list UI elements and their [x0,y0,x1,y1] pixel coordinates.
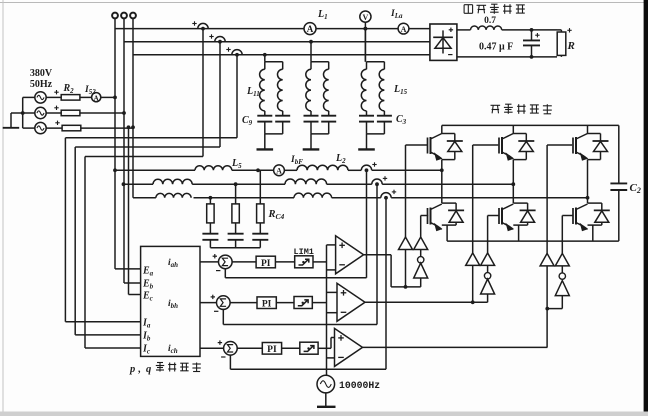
label + S3 [218,342,222,344]
label + humpF3 [392,191,396,193]
inverter bubble A [418,257,424,263]
wire C lower gate [561,216,563,254]
wire phase c [46,127,62,129]
wire vertical phase A [114,18,116,269]
wire A upper gate [405,145,407,237]
capacitor C2 [618,125,620,183]
driver B buffer2 [481,253,495,266]
node F2 start [122,182,126,186]
wire Ib sense [219,42,221,147]
wire C bubble link [561,266,563,273]
wire ich out [200,347,224,349]
wire B lower gate [487,216,489,253]
driver C inverter [555,281,569,296]
terminal A [112,13,118,19]
wire hump F1 sense [366,172,368,278]
wire F1 e [372,169,442,171]
CT hump F1 [361,165,371,170]
svg-text:380V: 380V [30,68,53,79]
CT hump line2 [215,37,225,42]
wire B upper gate [472,145,474,253]
wire Ec entry [129,294,141,296]
wire vertical phase B [123,18,125,283]
svg-text:A: A [307,24,314,34]
summing junction S3 [224,342,238,356]
node Ec tap [127,125,131,129]
comparator 1 [336,236,364,274]
wire ibh out [200,302,217,304]
wire osc ground [325,392,327,406]
driver C buffer2 [555,253,569,266]
label + phase c [55,122,59,124]
border artifact bottom gray band [0,412,648,416]
node cap tap [530,28,534,32]
driver A inverter [414,263,428,278]
wire A input [405,250,407,287]
svg-text:p: p [129,364,135,375]
resistor R2 phase a [61,95,80,101]
wire PI2 to LIM2 [276,302,294,304]
inductor 0.7 [471,26,502,30]
wire F1 a [115,169,195,171]
inductor F3 right [294,193,332,198]
svg-text:V: V [363,13,369,22]
AC source Vb [35,107,46,118]
label + S2 [211,296,215,298]
node V junction [364,27,368,31]
limiter 3 [300,342,318,354]
svg-text:10000Hz: 10000Hz [339,380,380,391]
wire b to bus [80,112,124,114]
wire phase a [46,96,61,98]
wire DC bus top [442,124,619,126]
wire iah out [200,261,219,263]
comparator 3 [335,328,363,366]
label + humpF2 [383,177,387,179]
filter group 2 [310,42,312,62]
oscillator 10000Hz [317,375,335,393]
svg-text:50Hz: 50Hz [30,79,53,90]
svg-text:R: R [567,40,575,52]
wire line1 [115,28,304,30]
capacitor rc1 [202,233,218,235]
node F2 leg junction [511,182,515,186]
wire comp2 out [365,301,488,303]
svg-text:PI: PI [262,300,272,310]
label + hump3 [226,49,230,51]
resistor R load [557,32,566,55]
wire S1 to PI1 [232,261,257,263]
wire a to ammeter [80,96,92,98]
wire F2 d [382,183,513,185]
filter group 3 L15 C3 [364,29,366,62]
driver C buffer1 [540,253,554,266]
CT hump line3 [232,50,242,55]
label + R [567,29,571,31]
node F2 rc2 [234,182,238,186]
wire vertical Ec sense [128,127,130,294]
AC source Vc [35,122,46,133]
AC source Va [35,92,46,103]
inductor F3 left [156,193,191,197]
wire osc vertical [326,245,328,376]
inductor L2 phase a [297,165,348,170]
node F1 start [113,168,117,172]
svg-text:q: q [146,364,151,375]
svg-text:0.47 μ F: 0.47 μ F [479,42,513,53]
node phase A source join [113,96,117,100]
IGBT leg phase B [498,138,500,154]
svg-text:0.7: 0.7 [484,16,496,26]
wire rc common [210,247,260,249]
wire rect out top [457,29,471,31]
label - S2 [214,310,218,312]
wire phase b [46,112,61,114]
node phase B source join [122,111,126,115]
inverter bubble B [484,273,490,279]
node F3 rc1 [209,196,213,200]
inductor L5 [195,166,232,171]
pq module box [141,246,200,356]
wire comp3 out [363,346,548,348]
node group1 tap [263,53,267,57]
node B drv junction [471,300,475,304]
wire S2 feedback [222,309,224,325]
label nonlinear load [463,5,465,14]
wire S3 to PI3 [237,347,263,349]
wire Eb entry [124,282,141,284]
capacitor rc2 [228,233,244,235]
terminal C [130,13,136,19]
label active filter [491,104,501,106]
wire F1 c [284,169,297,171]
label + hump1 [192,23,196,25]
driver B buffer1 [466,253,480,266]
border artifact right black bar [644,0,648,412]
wire B bubble link [487,265,489,272]
label + phase b [54,107,58,109]
wire F2 a [124,183,154,185]
summing junction S2 [217,296,231,310]
CT hump line1 [198,23,208,28]
wire F3 c [332,197,381,199]
wire R top [557,29,561,31]
wire load bottom [457,56,557,58]
node neutral junction [21,111,25,115]
ground source [3,127,20,129]
wire c to bus [81,127,133,129]
wire S1 feedback [224,268,226,278]
wire F3 b [194,197,295,199]
capacitor 0.47uF [531,30,533,41]
limiter LIM1 [295,256,313,268]
wire PI1 to LIM1 [275,261,294,263]
ground oscillator [317,406,336,408]
wire line3 [133,54,430,56]
wire S2 to PI2 [230,302,258,304]
svg-text:PI: PI [261,259,271,269]
filter group 1 L11 C9 [264,55,266,62]
wire F2 b [192,183,285,185]
wire Ia sense [236,55,238,138]
wire line2 [124,41,430,43]
rectifier diode [442,30,444,53]
wire PI3 to LIM3 [282,347,300,349]
label + cap [535,34,539,36]
driver A buffer1 [399,237,413,250]
wire comp1 out [364,254,392,256]
wire F3 d [391,197,587,199]
svg-text:PI: PI [267,345,277,355]
svg-text:A: A [401,25,407,34]
svg-text:A: A [276,167,282,176]
wire DC bus bottom [447,240,619,242]
wire F1 b [232,169,274,171]
driver A buffer2 [414,237,428,250]
label + S1 [213,255,217,257]
wire Ea entry [115,268,141,270]
label - S1 [216,270,220,272]
border artifact top [0,2,648,4]
summing junction S1 [219,255,233,269]
label + humpF1 [372,164,376,166]
limiter 2 [294,297,312,309]
inductor F2 left [153,179,192,184]
wire C input [546,266,548,348]
wire a to bus [101,96,115,98]
PI controller 2 [257,297,276,309]
wire comp2 plus jog [327,291,338,293]
wire LIM2 out [312,302,326,304]
label - rectifier [448,54,452,56]
PI controller 1 [256,256,275,268]
node group3 tap [364,27,368,31]
IGBT leg phase C [572,138,574,154]
border artifact left [2,0,4,416]
resistor R phase b [61,110,80,116]
ammeter L1 [304,23,316,35]
ammeter I52 [92,93,101,102]
wire load top [502,29,557,31]
resistor RC branch1 [209,198,211,204]
wire A lower gate [420,216,422,238]
wire source neutral bus [22,97,24,128]
capacitor rc3 [252,233,268,235]
wire comp1 minus [327,269,336,271]
wire V stub [364,22,366,28]
inverter bubble C [559,273,565,279]
wire comp3 minus [327,357,335,359]
ammeter IbF [274,165,285,176]
wire F3 a [134,197,156,199]
terminal B [121,13,127,19]
wire comp1 plus jog [327,244,336,246]
label + phase a [54,91,58,93]
node cap bottom [530,55,534,59]
node phase C source join [131,125,135,129]
wire to ground [11,112,23,114]
comparator 2 [337,283,365,321]
wire vertical phase C [132,18,134,197]
voltmeter V [360,11,371,22]
driver B inverter [481,279,495,294]
PI controller 3 [262,343,281,355]
wire F2 c [327,183,372,185]
wire S3 feedback [229,355,231,370]
inductor F2 right [285,179,327,184]
wire hump F2 sense [376,185,378,324]
ammeter ILa [398,23,409,34]
node A drv junction [404,285,408,289]
wire F1 d [348,169,361,171]
wire hump F3 sense [385,199,387,369]
wire C upper gate [546,145,548,253]
label - S3 [221,356,225,358]
CT hump F2 [372,179,382,184]
wire Ic sense [202,29,204,157]
node group2 tap [309,40,313,44]
node F3 leg junction [586,196,590,200]
rectifier box [430,24,457,60]
label + rectifier [449,29,453,31]
resistor R phase c [62,125,81,131]
wire comp2 minus [327,312,338,314]
wire B input [472,265,474,302]
resistor RC4 branch3 [259,170,261,204]
svg-text:LIM1: LIM1 [294,247,314,257]
label + hump2 [209,36,213,38]
wire A bubble link [420,250,422,257]
wire LIM1 out [313,261,327,263]
wire LIM3 out [318,347,331,349]
node F1 rc3 [256,168,260,172]
node C drv junction [545,307,549,311]
node F1 leg junction [440,168,444,172]
CT hump F3 [381,193,391,198]
resistor RC branch2 [235,184,237,204]
IGBT leg phase A [427,138,429,154]
